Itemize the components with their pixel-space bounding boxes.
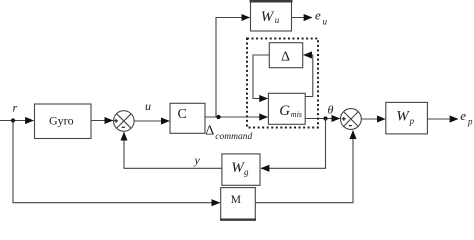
block Wu xyxy=(251,1,292,31)
svg-text:y: y xyxy=(194,153,201,167)
wire Wu to eu xyxy=(292,17,313,19)
svg-text:command: command xyxy=(215,132,252,142)
block Gyro xyxy=(35,104,92,139)
svg-text:p: p xyxy=(409,116,415,126)
node r branch dot xyxy=(11,118,15,122)
svg-text:g: g xyxy=(244,167,249,177)
label sum1 minus xyxy=(122,126,125,128)
svg-text:r: r xyxy=(13,101,18,115)
svg-text:e: e xyxy=(460,108,466,123)
svg-text:Δ: Δ xyxy=(281,50,290,65)
svg-text:Gyro: Gyro xyxy=(49,114,74,128)
block Wg xyxy=(222,154,260,185)
label sum1 plus xyxy=(114,119,118,123)
svg-text:C: C xyxy=(178,107,187,122)
svg-text:mis: mis xyxy=(291,110,302,119)
label sum2 plus xyxy=(342,117,346,121)
svg-text:u: u xyxy=(275,15,280,25)
uncertainty dotted box xyxy=(247,39,318,128)
block Delta xyxy=(269,43,302,68)
svg-text:W: W xyxy=(261,9,275,25)
label sum2 minus xyxy=(349,125,352,127)
wire Gmis to sum2 xyxy=(305,118,340,120)
svg-text:W: W xyxy=(396,109,410,125)
svg-text:θ: θ xyxy=(328,103,334,117)
wire Gyro to sum1 xyxy=(91,120,113,122)
block Wp xyxy=(386,102,428,133)
block C xyxy=(170,103,205,133)
summing junction S1 xyxy=(114,111,135,132)
svg-text:u: u xyxy=(323,16,328,26)
wire Gmis up into delta right xyxy=(304,55,313,97)
block M xyxy=(221,188,256,219)
wire branch up to Wu xyxy=(216,18,250,118)
wire Wp to ep xyxy=(428,118,459,120)
wire sum1 to C xyxy=(134,120,169,122)
wire sum2 to Wp xyxy=(362,118,386,120)
wire C to Gmis xyxy=(205,116,268,118)
node delta_command junction dot xyxy=(216,115,220,119)
wire M to sum2 bottom xyxy=(255,131,353,203)
svg-text:M: M xyxy=(231,194,241,206)
wire Wg to sum1 bottom xyxy=(124,132,222,168)
wire theta node down to Wg xyxy=(261,119,326,169)
svg-text:p: p xyxy=(467,117,473,127)
svg-text:G: G xyxy=(279,103,290,119)
svg-text:Δ: Δ xyxy=(205,124,214,139)
svg-text:e: e xyxy=(315,7,321,22)
wire r input xyxy=(0,120,34,122)
wire delta feedback left: delta out down into Gmis xyxy=(253,55,269,99)
block Gmis xyxy=(268,93,305,124)
svg-text:u: u xyxy=(145,99,151,113)
summing junction S2 xyxy=(341,109,362,130)
node theta dot xyxy=(323,116,327,120)
wire r branch down to M xyxy=(13,121,220,203)
